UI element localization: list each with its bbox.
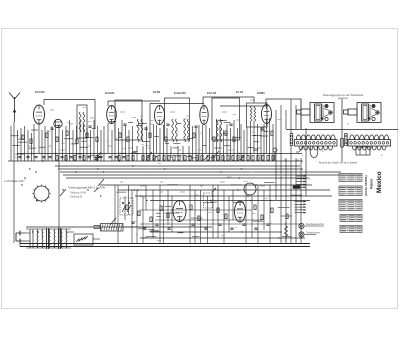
svg-text:Ansicht der Köpfe von der Löts: Ansicht der Köpfe von der Lötseite (319, 162, 358, 165)
svg-text:TA: TA (308, 178, 311, 181)
speaker jack top (299, 223, 324, 229)
switch wafer strip right (348, 135, 391, 157)
bus mid line 4 (150, 200, 310, 202)
tube V1b ECC85 second triode (54, 119, 62, 127)
fuse Si1 (94, 226, 100, 229)
capacitor row marks (18, 157, 125, 158)
coil L7/L8 (172, 119, 177, 142)
data table 5 (340, 226, 362, 233)
tube V4 EABC80 (200, 106, 208, 125)
bus heater line 1 (55, 165, 300, 167)
bus line to switch strip 1 (60, 171, 341, 173)
speaker jack bottom (299, 232, 320, 238)
resistors lower mid (126, 205, 288, 222)
svg-text:Tonabnehmer: Tonabnehmer (306, 232, 320, 235)
svg-text:Zweitlautsprecher: Zweitlautsprecher (306, 223, 324, 226)
bus line lower (66, 177, 308, 179)
bus mid line 7 (140, 223, 300, 225)
svg-text:Tastenaggregat 846-1 ½µF/W: Tastenaggregat 846-1 ½µF/W (68, 186, 105, 190)
tube V6 EL84 lower (173, 201, 186, 222)
data table 1 (339, 174, 362, 182)
component value labels (15, 100, 302, 240)
bus heater line 2 (58, 168, 303, 170)
output transformer box Tr2 (247, 103, 268, 127)
svg-text:U-W-Skala 4/21º: U-W-Skala 4/21º (4, 179, 25, 183)
wire top drops (44, 97, 301, 130)
data table 2 (339, 186, 362, 196)
potentiometer arrows (94, 156, 244, 192)
wire mixer stage verticals (108, 120, 150, 161)
IF transformer can Fi2 (165, 98, 190, 140)
IF transformer can Fi3 (212, 98, 240, 140)
svg-text:ECL80: ECL80 (207, 91, 217, 95)
strip right terminal post (345, 134, 348, 146)
svg-text:EF89: EF89 (153, 90, 161, 94)
bus mid line 1 (100, 184, 312, 186)
switch assembly right view S2 (344, 103, 382, 126)
wire top net a (44, 99, 95, 101)
wire center stem (341, 99, 343, 162)
coupling capacitors upper (50, 124, 263, 129)
wire band-switch verticals (56, 120, 105, 243)
dial lamp circle (244, 183, 256, 195)
black connector blob (293, 186, 300, 189)
switch assembly left view S1 (297, 103, 335, 126)
svg-text:Kaiser: Kaiser (370, 178, 374, 189)
tube V7 EM80 lower (235, 201, 246, 222)
wire output stage verticals (247, 99, 306, 243)
coil L5/L6 (137, 119, 142, 142)
svg-text:Stellung UKW: Stellung UKW (70, 191, 87, 195)
wire interconnect stubs upper (11, 120, 269, 157)
wire power section links (20, 227, 150, 247)
svg-text:Stellung M: Stellung M (70, 195, 82, 199)
wire interconnect stubs lower (116, 182, 302, 237)
wire detector stage verticals (203, 120, 245, 161)
svg-text:ECH81: ECH81 (105, 91, 115, 95)
antenna A1 (9, 93, 20, 123)
filter choke box (101, 224, 124, 232)
data table 3 (339, 200, 362, 211)
bus mid line 3 (135, 195, 332, 197)
svg-text:ECC85: ECC85 (35, 90, 45, 94)
coil L11/L12 (216, 119, 221, 142)
tube V5 EL84 (262, 105, 272, 124)
rectifier Gr1 (74, 234, 93, 245)
mains plug (16, 231, 26, 244)
svg-text:gesehen: gesehen (338, 96, 349, 100)
bus mid line 2 (118, 189, 330, 191)
FM tuner coil box (77, 105, 87, 138)
tuning capacitor drum (32, 184, 51, 203)
jack circle mid right (273, 148, 277, 161)
switch wafer strip left (295, 135, 338, 158)
svg-text:EABC80: EABC80 (174, 91, 186, 95)
wire IF stage verticals (154, 124, 200, 161)
chassis ground double line (20, 244, 310, 247)
svg-text:Mexico: Mexico (376, 171, 383, 193)
electrolytic capacitors (131, 222, 269, 229)
switch wafer strip terminal post (290, 134, 293, 146)
junction dots (21, 153, 279, 244)
resistor row on anode bus (56, 156, 274, 161)
wire lower mid verticals (115, 185, 270, 243)
bus line 238 (140, 237, 305, 239)
resistor near jacks (285, 222, 288, 241)
bus mid line 5 (140, 209, 252, 211)
wire top net b (108, 100, 160, 102)
switch contacts in dashed box (122, 202, 131, 212)
svg-text:EL84: EL84 (236, 90, 244, 94)
bus line to switch strip 2 (63, 174, 341, 176)
winding Tr2 primary (250, 106, 255, 121)
power transformer Tr1 (26, 228, 71, 249)
terminal row TA (297, 175, 311, 188)
label switch note lines (70, 191, 87, 199)
coil L9/L10 (184, 119, 189, 142)
bus AVC line (18, 153, 302, 155)
dashed switch box lower left (120, 198, 133, 215)
bus anode line (8, 160, 303, 162)
svg-text:EM80: EM80 (257, 91, 265, 95)
tube V2 ECH81 (107, 106, 117, 124)
svg-text:(Art.Nr. 545551): (Art.Nr. 545551) (364, 175, 368, 196)
tube V1 ECC85 (34, 105, 45, 124)
label switch assembly caption (323, 93, 364, 100)
dashed alignment box (204, 193, 213, 208)
contact strip center resistor (341, 139, 344, 148)
trimmer and padder capacitors (22, 131, 273, 143)
wire top net f (266, 98, 301, 100)
tube V3 EF89 (155, 106, 165, 125)
bus power line (26, 226, 212, 228)
wire top net e (220, 105, 268, 107)
IF transformer can Fi1 (115, 100, 142, 140)
bus mid line 6 (155, 219, 262, 221)
switch lever diagonals (60, 151, 219, 225)
bus B+ line (150, 231, 282, 233)
divider line under switch views (286, 129, 398, 131)
wire FM front-end verticals (11, 122, 52, 243)
terminal row TB (295, 201, 307, 214)
wire top net d (203, 96, 254, 98)
data table 4 (340, 215, 362, 222)
wire top net c (150, 103, 204, 105)
